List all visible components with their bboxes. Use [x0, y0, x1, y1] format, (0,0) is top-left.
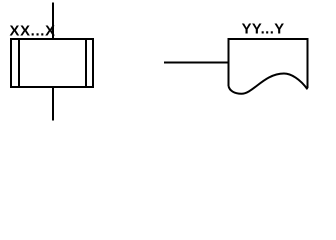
- svg-text:YY...Y: YY...Y: [242, 21, 285, 37]
- svg-text:XX...X: XX...X: [10, 23, 56, 39]
